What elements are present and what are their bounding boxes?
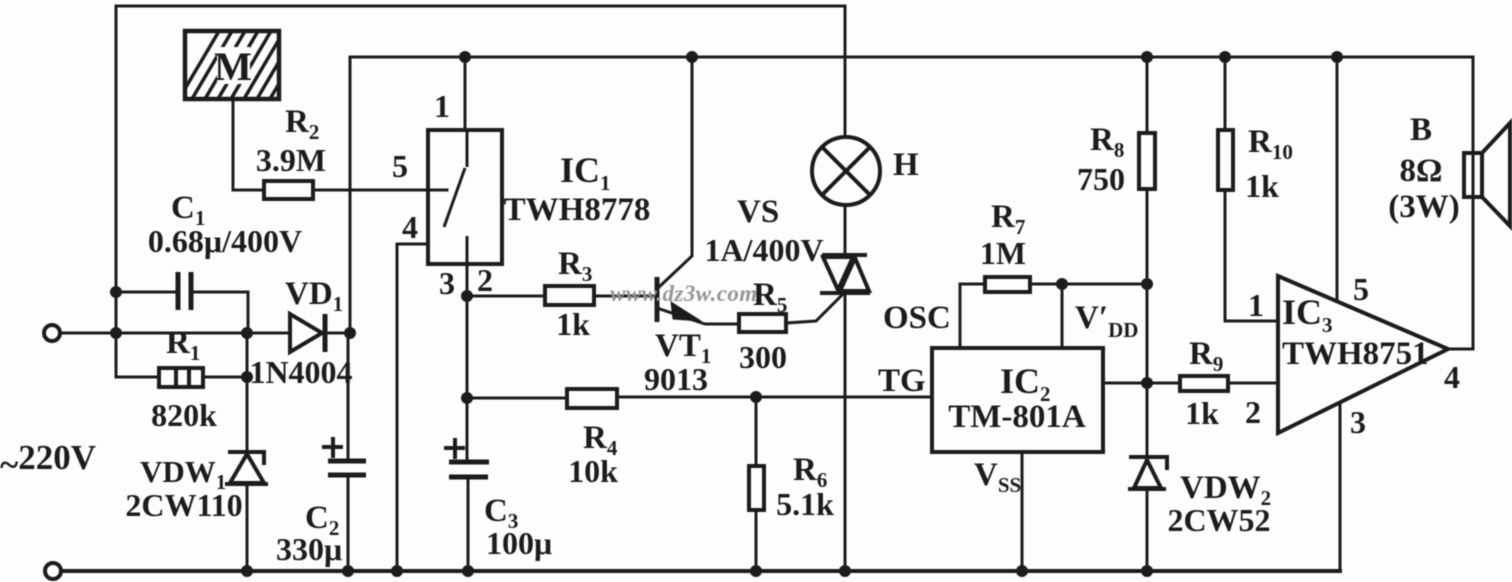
capacitor C2 330u xyxy=(322,437,366,475)
svg-text:2CW52: 2CW52 xyxy=(1167,502,1270,538)
wire top frame from left vertical to lamp H xyxy=(116,6,845,137)
wire diode cathode to node xyxy=(325,332,351,335)
wire motor M to R2 xyxy=(233,99,264,190)
svg-text:1k: 1k xyxy=(1245,168,1279,204)
node IC1 pin2 xyxy=(461,290,473,302)
wire left frame vertical xyxy=(115,6,118,377)
svg-text:1N4004: 1N4004 xyxy=(249,354,352,390)
node VD1 anode xyxy=(241,327,253,339)
svg-text:TWH8778: TWH8778 xyxy=(504,192,651,228)
resistor R4 10k xyxy=(567,389,617,408)
wire R9 to IC3 pin2 xyxy=(1228,382,1278,385)
svg-text:1M: 1M xyxy=(980,235,1026,271)
svg-text:H: H xyxy=(893,147,919,183)
wire R4 to IC2 TG input xyxy=(617,396,932,399)
transistor Q1 : VT1 9013 xyxy=(657,277,701,322)
node R6 top xyxy=(750,391,762,403)
wire DC positive rail y=57 xyxy=(350,56,1473,59)
wire IC2 Vdd pin xyxy=(1061,284,1064,348)
resistor R10 1k xyxy=(1218,130,1233,190)
node R4 left xyxy=(461,392,473,404)
speaker B 8ohm xyxy=(1464,123,1510,226)
wire IC2 output to R9 xyxy=(1103,382,1180,385)
diode VD1 1N4004 xyxy=(290,314,325,352)
resistor R2 xyxy=(264,181,313,199)
wire IC3 pin5 from rail xyxy=(1336,57,1339,301)
node C1 left xyxy=(110,286,122,298)
node rail pin1 xyxy=(459,51,471,63)
svg-text:300: 300 xyxy=(739,339,787,375)
wire R3 to VT1 base xyxy=(594,295,655,298)
node VD1 cathode xyxy=(344,327,356,339)
svg-text:750: 750 xyxy=(1077,161,1125,197)
wire IC3 pin3 to ground xyxy=(1339,403,1342,571)
node ground R6 xyxy=(750,565,762,577)
svg-text:(3W): (3W) xyxy=(1388,189,1459,225)
resistor R9 1k xyxy=(1180,376,1228,391)
svg-text:3: 3 xyxy=(439,265,455,301)
svg-text:1A/400V: 1A/400V xyxy=(704,232,823,268)
node Vdd rail xyxy=(1141,278,1153,290)
node terminal tee xyxy=(110,327,122,339)
wire R10 to IC3 pin1 xyxy=(1225,190,1278,321)
wire VDW2 to ground xyxy=(1146,489,1149,571)
svg-text:TM-801A: TM-801A xyxy=(948,399,1086,435)
wire R8 vertical net xyxy=(1146,57,1149,133)
svg-text:1k: 1k xyxy=(556,306,590,342)
terminal lower xyxy=(45,563,61,579)
resistor R1 xyxy=(116,368,247,387)
capacitor C3 100u xyxy=(444,438,489,477)
svg-text:8Ω: 8Ω xyxy=(1400,153,1443,189)
svg-text:1: 1 xyxy=(1248,287,1264,323)
wire R8 to VDW2 xyxy=(1146,189,1149,456)
svg-text:10k: 10k xyxy=(568,453,618,489)
svg-text:9013: 9013 xyxy=(644,361,708,397)
node ground C3 xyxy=(462,565,474,577)
wire C3 bottom to ground rail xyxy=(467,479,470,571)
node ground VS xyxy=(839,565,851,577)
capacitor C1 xyxy=(178,272,191,310)
node rail R8 xyxy=(1141,51,1153,63)
wire speaker branch vertical xyxy=(1472,57,1475,349)
wire R6 top xyxy=(755,397,758,466)
node rail R10 xyxy=(1219,51,1231,63)
svg-text:M: M xyxy=(214,44,252,89)
svg-text:4: 4 xyxy=(402,209,418,245)
node ground C2 xyxy=(342,565,354,577)
wire IC1 pin1 from rail xyxy=(464,57,467,130)
svg-text:1k: 1k xyxy=(1185,395,1219,431)
svg-text:5: 5 xyxy=(1353,271,1369,307)
svg-text:2: 2 xyxy=(477,262,493,298)
wire C2 bottom to ground rail xyxy=(347,475,350,571)
wire ground rail bottom xyxy=(62,569,1340,573)
resistor R6 5.1k xyxy=(749,466,764,510)
resistor R7 1M xyxy=(985,277,1030,292)
wire VT1 collector to rail xyxy=(658,57,692,288)
wire IC3 pin4 to speaker branch xyxy=(1448,348,1473,351)
svg-text:3.9M: 3.9M xyxy=(256,142,326,178)
wire lamp H to VS triac xyxy=(844,205,847,254)
node R7 right xyxy=(1056,278,1068,290)
wire IC1 pin2/3 junction to R3 xyxy=(467,295,545,298)
wire IC2 Vss pin to ground xyxy=(1021,452,1024,571)
node rail pin5 xyxy=(1331,51,1343,63)
node ground VDW2 xyxy=(1141,565,1153,577)
svg-text:330μ: 330μ xyxy=(276,531,342,567)
wire VS triac to ground rail xyxy=(844,295,847,571)
svg-text:5.1k: 5.1k xyxy=(776,486,834,522)
zener VDW2 2CW52 xyxy=(1128,457,1167,489)
wire IC1 pin4 down to ground xyxy=(397,244,428,571)
svg-text:TWH8751: TWH8751 xyxy=(1282,336,1429,372)
svg-text:4: 4 xyxy=(1444,359,1460,395)
wire R4 node to R4 body xyxy=(467,397,567,400)
motor M xyxy=(176,26,313,104)
svg-text:OSC: OSC xyxy=(883,300,951,336)
resistor R3 1k xyxy=(545,286,594,305)
thyristor VS 1A/400V xyxy=(820,255,870,293)
wire R7 right to Vdd rail xyxy=(1030,283,1147,286)
op-amp U2 : IC3 TWH8751 triangle xyxy=(1278,276,1448,433)
svg-text:B: B xyxy=(1410,112,1432,148)
svg-text:2: 2 xyxy=(1245,394,1261,430)
svg-text:0.68μ/400V: 0.68μ/400V xyxy=(148,223,302,259)
wire R5 to VS gate xyxy=(786,295,842,323)
wire VT1 emitter to R5 xyxy=(660,309,739,324)
svg-text:5: 5 xyxy=(392,148,408,184)
IC2 TM-801A box xyxy=(932,348,1103,452)
svg-text:820k: 820k xyxy=(151,397,217,433)
node ground pin4 xyxy=(391,565,403,577)
wire R10 top xyxy=(1224,57,1227,130)
svg-text:3: 3 xyxy=(1350,404,1366,440)
wire IC2 OSC pin to R7 xyxy=(960,284,985,348)
node ground Vss xyxy=(1016,565,1028,577)
zener VDW1 2CW110 xyxy=(225,333,268,571)
wire vertical net VD1-cathode / C2 top xyxy=(349,57,352,333)
wire AC live horizontal to diode xyxy=(61,332,290,335)
node R9 crossing xyxy=(1141,377,1153,389)
wire IC1 pin2 node down to R4 node and C3 xyxy=(466,296,469,461)
svg-text:TG: TG xyxy=(878,363,926,399)
svg-text:1: 1 xyxy=(434,88,450,124)
node R1 right xyxy=(241,371,253,383)
svg-text:www.dz3w.com: www.dz3w.com xyxy=(610,281,758,306)
op-amp U1 : IC1 TWH8778 box xyxy=(428,130,502,296)
resistor R5 300 xyxy=(739,314,786,332)
terminal upper xyxy=(44,325,60,341)
svg-text:100μ: 100μ xyxy=(486,525,552,561)
resistor R8 750 xyxy=(1139,133,1155,189)
wire R6 bottom to ground xyxy=(755,510,758,571)
lamp H xyxy=(812,137,880,205)
node ground VDW1 xyxy=(241,565,253,577)
svg-text:2CW110: 2CW110 xyxy=(125,487,242,523)
svg-text:VS: VS xyxy=(737,194,779,230)
node rail collector xyxy=(686,51,698,63)
wire R2 to IC1 pin5 xyxy=(313,189,447,192)
